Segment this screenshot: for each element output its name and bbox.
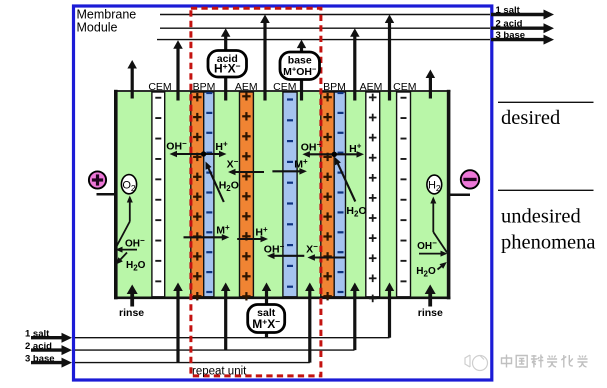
svg-text:Module: Module <box>77 20 118 34</box>
svg-text:3 base: 3 base <box>25 353 55 364</box>
svg-text:M+OH−: M+OH− <box>283 65 317 78</box>
svg-text:undesired: undesired <box>501 206 581 228</box>
svg-text:CEM: CEM <box>148 81 171 93</box>
svg-text:AEM: AEM <box>360 81 383 93</box>
svg-text:CEM: CEM <box>273 81 296 93</box>
svg-text:BPM: BPM <box>193 81 216 93</box>
svg-text:AEM: AEM <box>235 81 258 93</box>
svg-text:2 acid: 2 acid <box>496 19 523 30</box>
svg-text:2 acid: 2 acid <box>25 341 52 352</box>
svg-text:phenomena: phenomena <box>501 232 596 254</box>
svg-text:desired: desired <box>501 107 560 129</box>
svg-text:rinse: rinse <box>119 307 144 319</box>
svg-text:3 base: 3 base <box>496 30 526 41</box>
svg-text:rinse: rinse <box>418 307 443 319</box>
svg-text:repeat unit: repeat unit <box>192 366 247 378</box>
svg-text:1 salt: 1 salt <box>25 328 50 339</box>
svg-text:1 salt: 1 salt <box>496 5 521 16</box>
svg-text:CEM: CEM <box>393 81 416 93</box>
svg-text:BPM: BPM <box>323 81 346 93</box>
